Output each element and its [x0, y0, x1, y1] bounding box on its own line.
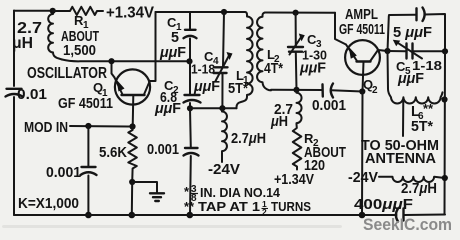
svg-text:1,500: 1,500	[63, 43, 96, 59]
svg-text:GF 45011: GF 45011	[58, 96, 113, 112]
svg-text:-24V: -24V	[208, 162, 240, 178]
node Q2 base junction	[359, 88, 365, 94]
node output coil junction	[442, 175, 448, 181]
node rail junction Q2	[359, 212, 366, 219]
node emitter junction	[108, 58, 114, 64]
svg-text:TURNS: TURNS	[271, 199, 311, 214]
capacitor C5 variable	[388, 40, 446, 87]
svg-text:GF 45011: GF 45011	[339, 22, 385, 38]
node tank feed junction	[293, 87, 299, 93]
node C1 bottom junction	[186, 58, 192, 64]
wire L2 bottom to Q2 base row	[271, 89, 322, 91]
node top rail C4 junction	[221, 9, 227, 15]
capacitor C1	[159, 12, 197, 61]
transistor Q2	[339, 7, 388, 96]
node base junction	[129, 123, 135, 129]
svg-text:μμF: μμF	[397, 71, 424, 87]
svg-text:5: 5	[171, 30, 179, 46]
inductor 2.7uH oscillator tank coil	[12, 11, 62, 60]
inductor 2.7uH feed	[208, 108, 266, 178]
resistor R2	[274, 124, 346, 188]
label MOD IN	[24, 120, 133, 136]
scan smudge	[2, 225, 342, 228]
capacitor C4 variable	[191, 12, 233, 108]
capacitor 0.001 mod-in	[46, 126, 97, 215]
svg-text:TAP AT 1: TAP AT 1	[198, 199, 260, 214]
capacitor 400uuF	[354, 197, 413, 222]
svg-text:5 μμF: 5 μμF	[393, 25, 432, 41]
transistor Q1	[58, 69, 150, 126]
node rail junction base	[129, 212, 136, 219]
svg-text:2.7μH: 2.7μH	[231, 131, 266, 147]
svg-text:400μμF: 400μμF	[354, 197, 413, 213]
svg-text:μμF: μμF	[193, 79, 220, 95]
wire base to rail	[131, 182, 133, 215]
node top rail junction	[50, 8, 56, 14]
svg-text:ANTENNA: ANTENNA	[365, 151, 436, 167]
svg-text:-24V: -24V	[348, 170, 378, 186]
svg-text:1-18: 1-18	[191, 62, 215, 77]
svg-text:μH: μH	[270, 114, 288, 130]
resistor R1	[53, 7, 103, 59]
label TO 50-OHM ANTENNA	[361, 138, 439, 167]
wire top rail corner into Q2 emitter	[335, 13, 346, 45]
svg-text:MOD IN: MOD IN	[24, 120, 68, 136]
svg-text:0.001: 0.001	[147, 142, 179, 158]
svg-text:K=X1,000: K=X1,000	[18, 196, 79, 212]
svg-text:0.001: 0.001	[312, 98, 346, 114]
wire Q1 emitter lead	[112, 61, 115, 78]
svg-text:2: 2	[372, 85, 378, 96]
svg-text:**: **	[423, 101, 434, 116]
inductor 2.7uH output	[348, 170, 445, 197]
capacitor C2	[154, 61, 201, 117]
node L6 right junction	[441, 96, 447, 102]
svg-text:+1.34V: +1.34V	[106, 5, 155, 22]
node Q2 collector junction	[384, 48, 390, 54]
wire top-left rail	[14, 10, 53, 12]
svg-text:5.6K: 5.6K	[99, 145, 128, 161]
node rail junction mod-in	[85, 212, 92, 219]
svg-text:SeekIC.com: SeekIC.com	[363, 215, 452, 234]
svg-text:4T*: 4T*	[264, 61, 283, 77]
inductor L6	[388, 51, 443, 136]
node ground junction	[129, 179, 135, 185]
svg-text:IN. DIA NO.14: IN. DIA NO.14	[200, 185, 281, 200]
wire bottom rail	[14, 214, 445, 217]
footnote tap note	[184, 199, 311, 217]
node MOD IN junction	[85, 123, 91, 129]
svg-text:+1.34V: +1.34V	[274, 172, 314, 188]
capacitor C3 variable	[288, 13, 327, 90]
svg-text:μμF: μμF	[154, 101, 181, 117]
svg-text:2.7μH: 2.7μH	[401, 181, 437, 197]
wire emitter row	[62, 60, 190, 62]
svg-text:μH: μH	[12, 35, 33, 52]
svg-text:5T*: 5T*	[228, 81, 248, 97]
svg-text:**: **	[184, 199, 195, 214]
capacitor 5uuF	[388, 8, 446, 52]
node C2 bottom junction	[187, 105, 193, 111]
wire tank bottom row	[190, 107, 237, 109]
capacitor 0.001 emitter chain	[147, 108, 199, 215]
wire L2 top to C3	[265, 12, 335, 14]
svg-text:0.01: 0.01	[17, 87, 47, 103]
wire top rail to tank	[156, 11, 246, 13]
svg-text:μμF: μμF	[159, 45, 186, 61]
inductor 2.7uH R2 branch	[270, 90, 301, 130]
resistor 5.6K	[99, 127, 137, 183]
svg-text:AMPL: AMPL	[345, 7, 378, 23]
svg-text:5T*: 5T*	[411, 119, 433, 135]
inductor L2	[257, 13, 283, 91]
wire Q2 base down to rail	[361, 92, 364, 216]
svg-text:μμF: μμF	[299, 61, 326, 77]
svg-text:0.001: 0.001	[46, 165, 81, 181]
ground	[132, 182, 164, 201]
wire right column	[444, 51, 447, 214]
node C4 bottom junction	[219, 105, 225, 111]
node rail junction under C chain	[187, 212, 194, 219]
node top rail C3 junction	[293, 10, 299, 16]
capacitor 0.01	[6, 87, 48, 103]
wire left border	[13, 11, 15, 216]
svg-text:2: 2	[262, 207, 267, 217]
node C5 right junction	[442, 48, 448, 54]
wire Q1 collector riser	[150, 12, 156, 81]
inductor L1	[228, 12, 253, 108]
capacitor 0.001 coupling	[312, 84, 362, 115]
footnote 3/8 coil note	[184, 184, 281, 204]
